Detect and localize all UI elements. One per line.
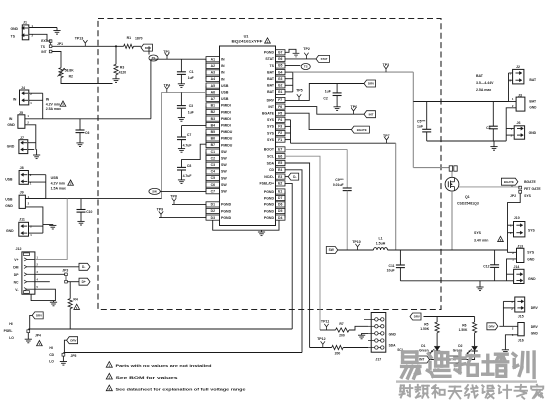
svg-text:R4: R4 bbox=[73, 298, 77, 302]
svg-text:IN: IN bbox=[46, 98, 50, 102]
capacitor C7 4.7uF bbox=[177, 136, 186, 138]
svg-text:PGND: PGND bbox=[221, 203, 232, 207]
svg-text:PMIDI: PMIDI bbox=[221, 104, 231, 108]
svg-text:PGND: PGND bbox=[264, 51, 275, 55]
svg-text:DRV: DRV bbox=[267, 98, 275, 102]
wire D1 to TP8 bbox=[172, 203, 206, 205]
capacitor C11 10uF bbox=[399, 250, 401, 265]
jumper JP4 bbox=[27, 330, 30, 333]
svg-text:BGATE: BGATE bbox=[504, 180, 514, 184]
svg-text:GND: GND bbox=[6, 229, 14, 233]
svg-text:BQ24161xYFF: BQ24161xYFF bbox=[232, 40, 264, 44]
svg-text:C6: C6 bbox=[211, 183, 215, 187]
svg-text:JP1: JP1 bbox=[57, 42, 63, 46]
svg-text:1870: 1870 bbox=[135, 37, 143, 41]
svg-text:J15: J15 bbox=[518, 315, 524, 319]
svg-text:FET GATE: FET GATE bbox=[524, 187, 541, 191]
svg-text:TP11: TP11 bbox=[321, 320, 329, 324]
wire BAT bus to right bbox=[293, 71, 414, 73]
wire R2 bottom to ground node bbox=[61, 78, 113, 84]
svg-text:200: 200 bbox=[339, 334, 345, 338]
svg-text:SYS: SYS bbox=[267, 131, 275, 135]
svg-text:BAT: BAT bbox=[267, 77, 275, 81]
svg-text:USB: USB bbox=[5, 198, 13, 202]
svg-text:DRV: DRV bbox=[414, 315, 420, 319]
connector J17 header 2x5 bbox=[371, 313, 386, 353]
watermark line 1 bbox=[403, 350, 417, 353]
wire R7 to J17 row2 bbox=[349, 326, 368, 330]
svg-text:J13: J13 bbox=[517, 244, 523, 248]
svg-text:R1: R1 bbox=[127, 36, 132, 40]
svg-text:BGATE: BGATE bbox=[524, 180, 536, 184]
svg-text:HI: HI bbox=[49, 346, 52, 350]
svg-text:See BOM for values: See BOM for values bbox=[116, 376, 178, 380]
svg-text:SYS: SYS bbox=[474, 231, 482, 235]
wire J12 DP to JP3 bbox=[35, 273, 65, 275]
svg-text:NC: NC bbox=[14, 280, 19, 284]
ground at R3 bbox=[112, 78, 119, 80]
wire BAT to J3 rail bbox=[413, 101, 508, 103]
wire TS net: JP1 to R1 bbox=[52, 45, 124, 47]
ground at SYS GND rail bbox=[479, 281, 481, 287]
svg-text:PMIDU: PMIDU bbox=[221, 137, 233, 141]
svg-text:J12: J12 bbox=[16, 247, 22, 251]
wire JP1 INT pin to R2 bbox=[52, 52, 61, 68]
svg-text:3.4V min: 3.4V min bbox=[474, 238, 488, 242]
svg-text:R5: R5 bbox=[424, 322, 428, 326]
resistor R6 1.50K bbox=[474, 317, 476, 323]
testpoint TP13 bbox=[84, 43, 86, 46]
svg-text:C11: C11 bbox=[389, 264, 395, 268]
LED D2 Green bbox=[474, 333, 476, 346]
svg-text:USB: USB bbox=[51, 176, 59, 180]
svg-text:DRV: DRV bbox=[368, 82, 374, 86]
testpoint TP6 bbox=[353, 111, 355, 114]
svg-text:PMIDI: PMIDI bbox=[221, 117, 231, 121]
testpoint TP4 bbox=[166, 89, 168, 92]
wire tie A5-A7 bbox=[205, 86, 207, 99]
svg-text:G4: G4 bbox=[278, 70, 283, 74]
wire E4 CD down bbox=[285, 170, 302, 353]
svg-text:DRV: DRV bbox=[145, 46, 151, 50]
wire tie F4-F1 SYS pins bbox=[285, 119, 291, 121]
svg-text:B3: B3 bbox=[211, 117, 215, 121]
svg-text:C6: C6 bbox=[85, 131, 89, 135]
svg-text:D6: D6 bbox=[278, 203, 282, 207]
svg-text:B7: B7 bbox=[211, 143, 215, 147]
svg-text:J8: J8 bbox=[20, 166, 24, 170]
svg-text:A1: A1 bbox=[211, 57, 215, 61]
svg-text:DRV: DRV bbox=[36, 314, 42, 318]
svg-text:GND: GND bbox=[7, 145, 15, 149]
wire R8 to J17 row5 bbox=[343, 347, 368, 349]
flag SW at C7 pin bbox=[160, 190, 206, 192]
svg-text:C10: C10 bbox=[86, 210, 92, 214]
svg-text:E3: E3 bbox=[278, 175, 282, 179]
flag STAT at D2 bbox=[447, 356, 461, 363]
svg-text:SW: SW bbox=[221, 157, 227, 161]
svg-text:A6: A6 bbox=[211, 90, 215, 94]
svg-text:G7: G7 bbox=[278, 51, 283, 55]
svg-text:INT: INT bbox=[41, 50, 46, 54]
flag DRV at J16 bbox=[487, 323, 498, 330]
wire J16 pin1 to ground bbox=[505, 335, 517, 350]
svg-text:JP2: JP2 bbox=[510, 194, 516, 198]
connector J16 bbox=[518, 323, 524, 336]
svg-text:J16: J16 bbox=[518, 338, 524, 342]
wire SW node bbox=[338, 249, 374, 251]
wire SYS rail to J13 pin2 bbox=[508, 250, 517, 252]
warning triangle 1 at R4 bbox=[74, 304, 80, 309]
svg-text:C1: C1 bbox=[189, 70, 193, 74]
svg-text:B2: B2 bbox=[211, 110, 215, 114]
svg-text:F7: F7 bbox=[278, 98, 282, 102]
svg-text:SW: SW bbox=[329, 248, 334, 252]
wire F7 DRV step up to DRV flag bbox=[285, 84, 364, 101]
testpoint TP7 bbox=[386, 140, 388, 143]
svg-text:TP13: TP13 bbox=[75, 36, 84, 40]
wires J11 pins to ground net bbox=[29, 225, 43, 227]
flag BGATE at F5 bbox=[351, 126, 369, 133]
ground tap near J11 bbox=[43, 224, 53, 227]
svg-text:IN: IN bbox=[221, 71, 225, 75]
svg-text:J10: J10 bbox=[514, 216, 520, 220]
svg-text:TP2: TP2 bbox=[303, 47, 310, 51]
wire G6 STAT to flag bbox=[285, 58, 316, 60]
wire DRV flag to PSEL rail bbox=[30, 315, 33, 329]
wire J12 shield to ground bbox=[31, 294, 53, 300]
wires J6 pins to GND rail bbox=[506, 128, 514, 130]
svg-text:PGND: PGND bbox=[264, 203, 275, 207]
svg-text:3.5—4.44V: 3.5—4.44V bbox=[476, 81, 494, 85]
svg-text:BGATE: BGATE bbox=[262, 112, 275, 116]
connector J15 bbox=[515, 297, 525, 312]
svg-text:B5: B5 bbox=[211, 130, 215, 134]
svg-text:SW: SW bbox=[221, 176, 227, 180]
svg-text:TS: TS bbox=[304, 65, 308, 69]
svg-text:IN: IN bbox=[221, 64, 225, 68]
svg-text:D1: D1 bbox=[211, 203, 215, 207]
svg-text:2.5A max: 2.5A max bbox=[46, 107, 61, 111]
flag D- at J12 bbox=[79, 263, 90, 270]
svg-text:SYS: SYS bbox=[267, 138, 275, 142]
ground at C3 bbox=[178, 117, 185, 119]
svg-text:BAT: BAT bbox=[476, 74, 484, 78]
wire J1 pin1 to ground bbox=[29, 27, 57, 29]
svg-text:C12: C12 bbox=[483, 265, 489, 269]
svg-text:SW: SW bbox=[152, 190, 157, 194]
wire J12 NC stub bbox=[35, 281, 50, 283]
wire DRV to R5 R6 bbox=[424, 316, 475, 318]
wire J9 pin1 to USB rail bbox=[25, 198, 45, 200]
svg-text:1.5uH: 1.5uH bbox=[376, 241, 386, 245]
svg-text:PGND: PGND bbox=[264, 190, 275, 194]
svg-text:IN: IN bbox=[221, 58, 225, 62]
wire D2 to STAT flag bbox=[461, 351, 475, 359]
ground under U1 bbox=[261, 230, 263, 232]
svg-text:BAT: BAT bbox=[267, 70, 275, 74]
warning triangle note 1 bbox=[106, 362, 112, 368]
svg-text:USB: USB bbox=[221, 97, 229, 101]
svg-text:58.8K: 58.8K bbox=[65, 69, 75, 73]
svg-text:BGATE: BGATE bbox=[357, 128, 367, 132]
svg-text:1.50K: 1.50K bbox=[420, 327, 429, 331]
svg-text:PSEL: PSEL bbox=[4, 329, 13, 333]
svg-text:DRV: DRV bbox=[531, 306, 539, 310]
svg-text:R7: R7 bbox=[339, 322, 343, 326]
wire G5 TS to oval flag bbox=[285, 65, 300, 67]
svg-text:GND: GND bbox=[528, 277, 536, 281]
svg-text:JP4: JP4 bbox=[35, 333, 41, 337]
wire R1 to DRV flag bbox=[134, 45, 142, 47]
wire tie G4-G1 BAT pins bbox=[285, 71, 293, 73]
capacitor C3 1uF bbox=[180, 92, 182, 105]
wire IN rail J5 pin1 to IC vertical bbox=[25, 118, 151, 120]
svg-text:IN: IN bbox=[221, 77, 225, 81]
svg-text:TS: TS bbox=[11, 35, 16, 39]
svg-text:1uF: 1uF bbox=[188, 76, 194, 80]
svg-text:SYS: SYS bbox=[267, 118, 275, 122]
svg-text:GND: GND bbox=[5, 204, 13, 208]
flag INT at F6 bbox=[364, 111, 376, 118]
wire IN A1 pin wire bbox=[151, 58, 206, 60]
svg-text:EXT: EXT bbox=[41, 39, 47, 43]
svg-text:FSEL/D+: FSEL/D+ bbox=[260, 182, 275, 186]
svg-text:C4: C4 bbox=[486, 126, 490, 130]
ground at C6 bbox=[76, 142, 83, 144]
testpoint TP8 bbox=[173, 201, 175, 204]
svg-text:BAT: BAT bbox=[529, 100, 537, 104]
svg-text:F5: F5 bbox=[278, 111, 282, 115]
resistor R8 200 bbox=[332, 345, 344, 349]
svg-text:D7: D7 bbox=[278, 196, 282, 200]
wire J5 pin2 to J7 ground bbox=[25, 125, 36, 143]
svg-text:C3: C3 bbox=[211, 163, 215, 167]
svg-text:4.7uF: 4.7uF bbox=[183, 174, 192, 178]
svg-text:R6: R6 bbox=[462, 323, 466, 327]
svg-text:F3: F3 bbox=[278, 125, 282, 129]
svg-text:L1: L1 bbox=[378, 237, 382, 241]
wire J3 pin2 GND down to J6 bbox=[506, 108, 516, 141]
flag INT at D1 bbox=[416, 356, 430, 363]
watermark line 2 bbox=[401, 384, 404, 386]
svg-text:TS: TS bbox=[270, 64, 275, 68]
wire tie C1-C7 SW pins bbox=[205, 152, 207, 192]
wire SYS bus to right bbox=[291, 142, 396, 144]
svg-text:4.2V min: 4.2V min bbox=[51, 181, 65, 185]
flag D- at E3 bbox=[285, 176, 288, 178]
wire D3 to TP9 bbox=[159, 217, 206, 219]
wire JP3 to D+ flag bbox=[67, 281, 79, 283]
svg-text:SDA: SDA bbox=[267, 161, 275, 165]
U1 left pin boxes A1-D3 bbox=[206, 57, 220, 62]
svg-text:SYS: SYS bbox=[527, 251, 535, 255]
flag DRV at R1 bbox=[141, 44, 153, 51]
svg-text:Q1: Q1 bbox=[465, 195, 470, 199]
warning triangle 3 at IN label bbox=[60, 101, 66, 106]
wires J8 pins bbox=[28, 174, 45, 176]
capacitor C2 1uF bbox=[336, 84, 338, 93]
capacitor C9 0.01uF bbox=[346, 149, 348, 188]
svg-text:C7: C7 bbox=[211, 189, 215, 193]
wires J15 pins down to DRV node bbox=[503, 300, 514, 302]
svg-text:G1: G1 bbox=[278, 90, 283, 94]
wires J14 pins to GND rail bbox=[507, 273, 514, 275]
svg-text:TP3: TP3 bbox=[383, 63, 390, 67]
svg-text:GND: GND bbox=[527, 258, 535, 262]
wire J1 pin2 to JP1 bbox=[29, 34, 51, 41]
svg-text:C5: C5 bbox=[211, 176, 215, 180]
wire J12 DM to D- flag bbox=[35, 266, 79, 268]
svg-text:4.7uF: 4.7uF bbox=[183, 143, 192, 147]
capacitor C1 1uF bbox=[180, 59, 182, 72]
svg-text:A5: A5 bbox=[211, 84, 215, 88]
svg-text:GND: GND bbox=[529, 105, 537, 109]
svg-text:TP4: TP4 bbox=[164, 83, 171, 87]
wire USB vertical down to USB rail bbox=[161, 92, 163, 198]
svg-text:A2: A2 bbox=[211, 64, 215, 68]
svg-text:1.5A max: 1.5A max bbox=[51, 186, 66, 190]
svg-text:DRV: DRV bbox=[489, 325, 495, 329]
warning triangle 1 at JP4 bbox=[37, 341, 43, 346]
svg-text:F1: F1 bbox=[278, 138, 282, 142]
svg-text:SYS: SYS bbox=[528, 229, 536, 233]
svg-text:SW: SW bbox=[221, 170, 227, 174]
wire USB rail bbox=[25, 198, 161, 200]
ground at BAT GND rail bbox=[493, 141, 495, 147]
svg-text:PMIDU: PMIDU bbox=[221, 143, 233, 147]
jumper JP1 bbox=[49, 40, 52, 43]
svg-text:CSD25481Q3: CSD25481Q3 bbox=[457, 201, 479, 205]
svg-text:U1: U1 bbox=[244, 35, 249, 39]
svg-text:IN: IN bbox=[9, 117, 13, 121]
svg-text:INT: INT bbox=[268, 105, 275, 109]
svg-text:J17: J17 bbox=[375, 357, 381, 361]
svg-text:See datasheet for explanation: See datasheet for explanation of full vo… bbox=[116, 388, 246, 392]
ground at C2 bbox=[334, 106, 341, 108]
svg-text:TP9: TP9 bbox=[157, 208, 164, 212]
svg-text:G2: G2 bbox=[278, 84, 283, 88]
wire GND rail under BAT bbox=[427, 140, 507, 142]
svg-text:1.50K: 1.50K bbox=[459, 328, 468, 332]
testpoint TP11 bbox=[326, 327, 328, 330]
wire F5 BGATE to flag bbox=[285, 113, 351, 129]
flag DRV at R5/R6 bbox=[410, 313, 421, 320]
svg-text:R2: R2 bbox=[69, 75, 73, 79]
resistor R4 on D+ net bbox=[69, 282, 71, 299]
svg-text:BOOT: BOOT bbox=[264, 148, 275, 152]
svg-text:USB: USB bbox=[221, 84, 229, 88]
svg-text:C5***: C5*** bbox=[417, 119, 426, 123]
wire J3 pin1 stub bbox=[509, 101, 517, 103]
EVM dashed boundary box bbox=[98, 19, 441, 310]
svg-text:1uF: 1uF bbox=[417, 125, 423, 129]
svg-text:SYS: SYS bbox=[524, 194, 532, 198]
testpoint TP10 bbox=[357, 247, 359, 250]
svg-text:D+: D+ bbox=[82, 280, 86, 284]
svg-text:DRV: DRV bbox=[70, 338, 76, 342]
svg-text:TP8: TP8 bbox=[170, 194, 177, 198]
ground at C8 bbox=[178, 179, 185, 181]
svg-text:J6: J6 bbox=[517, 121, 521, 125]
svg-text:10uF: 10uF bbox=[387, 269, 395, 273]
ground at C1 bbox=[178, 83, 185, 85]
wire Q1 gate to JP2 bbox=[459, 186, 520, 188]
wire tie B5-B7 PMIDU bbox=[205, 132, 207, 145]
svg-text:2.5A max: 2.5A max bbox=[476, 88, 491, 92]
svg-text:1uF: 1uF bbox=[325, 89, 331, 93]
svg-text:V-: V- bbox=[15, 288, 18, 292]
svg-text:BAT: BAT bbox=[267, 84, 275, 88]
svg-text:R3: R3 bbox=[120, 65, 124, 69]
svg-text:4120: 4120 bbox=[119, 70, 127, 74]
svg-text:C7: C7 bbox=[187, 133, 191, 137]
wire J17 GND row3 to ground bbox=[362, 333, 368, 335]
jumper JP5 bbox=[62, 353, 65, 356]
wire DRV flag to CD rail bbox=[64, 340, 66, 352]
flag TS at G5 bbox=[301, 64, 310, 70]
svg-text:GND: GND bbox=[389, 332, 397, 336]
svg-text:E1: E1 bbox=[278, 190, 282, 194]
wire IN vertical from IC A-pins down to rail bbox=[150, 59, 152, 119]
warning triangle 3 at SYS label bbox=[498, 236, 504, 241]
wire stub to TS oval flag bbox=[148, 46, 150, 54]
wire PMIDU to C8 bbox=[182, 144, 207, 167]
warning triangle 3 at USB label bbox=[68, 180, 74, 185]
svg-text:J14: J14 bbox=[514, 265, 520, 269]
capacitor C8 4.7uF bbox=[177, 166, 186, 168]
wires J7 pins to ground bbox=[28, 142, 36, 144]
wire G7 PGND step to ground bbox=[285, 49, 296, 53]
svg-text:G6: G6 bbox=[278, 57, 283, 61]
svg-text:BAT: BAT bbox=[529, 78, 537, 82]
svg-text:C4: C4 bbox=[211, 170, 215, 174]
svg-text:PGND: PGND bbox=[221, 209, 232, 213]
svg-text:STAT: STAT bbox=[321, 57, 328, 61]
wire PSEL rail bbox=[28, 328, 292, 330]
resistor R3 4120 bbox=[114, 64, 118, 74]
warning triangle note 2 bbox=[106, 373, 112, 379]
svg-text:CD: CD bbox=[269, 168, 275, 172]
wire J12 V+ up to USB rail bbox=[35, 199, 67, 260]
svg-text:CD: CD bbox=[49, 353, 54, 357]
wire J17 row1 stub bbox=[364, 318, 368, 320]
flag BGATE at Q1 gate bbox=[501, 178, 518, 185]
svg-text:D4: D4 bbox=[278, 216, 282, 220]
svg-text:PMIDI: PMIDI bbox=[221, 124, 231, 128]
svg-text:200: 200 bbox=[335, 351, 341, 355]
watermark separator bbox=[396, 380, 537, 382]
testpoint TP1 bbox=[166, 56, 168, 59]
svg-text:JP5: JP5 bbox=[71, 354, 77, 358]
svg-text:DM: DM bbox=[13, 265, 18, 269]
svg-text:A3: A3 bbox=[211, 71, 215, 75]
svg-text:J1: J1 bbox=[23, 21, 27, 25]
svg-text:C2: C2 bbox=[323, 97, 327, 101]
svg-text:DP: DP bbox=[14, 273, 19, 277]
testpoint TP3 bbox=[385, 69, 387, 72]
flag DRV at JP5 bbox=[67, 337, 78, 344]
svg-text:A7: A7 bbox=[211, 97, 215, 101]
svg-text:D-: D- bbox=[82, 265, 85, 269]
svg-text:STAT: STAT bbox=[265, 57, 274, 61]
flag DRV at JP4 bbox=[32, 312, 43, 319]
wire USB A6 pin wire bbox=[162, 91, 207, 93]
svg-text:C9***: C9*** bbox=[335, 178, 344, 182]
wire J12 V- to ground bbox=[35, 289, 56, 300]
svg-text:J9: J9 bbox=[20, 190, 24, 194]
wire BAT bus down bbox=[412, 72, 414, 168]
